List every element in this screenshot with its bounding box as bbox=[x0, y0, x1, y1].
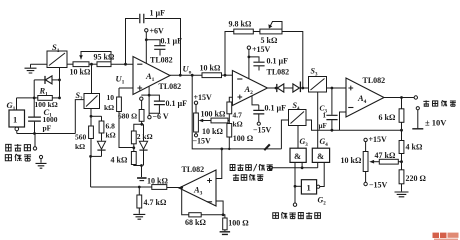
switch S1 bbox=[47, 51, 67, 68]
wire G1 output down bbox=[16, 131, 18, 134]
op-amp A1 TL082 bbox=[133, 57, 170, 95]
wiper of 10 kOhm potentiometer bbox=[81, 52, 111, 62]
potentiometer 5 kOhm bbox=[260, 29, 282, 34]
bus wire to A3 input resistor bbox=[91, 186, 152, 188]
svg-text:&: & bbox=[294, 151, 301, 161]
offset resistor 100 kOhm bbox=[201, 120, 211, 122]
A1 output wire node Uo bbox=[170, 74, 202, 76]
resistor 100 Ohm to bus bbox=[228, 121, 230, 124]
resistor 10 kOhm to A2 inverting input bbox=[202, 73, 222, 78]
DC output terminal bbox=[414, 96, 417, 99]
red watermark bbox=[433, 233, 459, 240]
ground under 4 kOhm bbox=[137, 177, 147, 179]
svg-text:0.1 µF: 0.1 µF bbox=[267, 57, 289, 66]
capacitor C1 1000 pF bbox=[33, 98, 35, 117]
wire 95 kOhm to A1 inverting input bbox=[111, 63, 133, 65]
svg-text:6 kΩ: 6 kΩ bbox=[379, 113, 396, 122]
svg-text:47 kΩ: 47 kΩ bbox=[375, 151, 396, 160]
svg-text:TL082: TL082 bbox=[150, 56, 173, 65]
svg-text:2 kΩ: 2 kΩ bbox=[137, 132, 153, 141]
negative supply -15V of A2 bbox=[252, 96, 259, 105]
wire G2 input bbox=[295, 185, 301, 187]
svg-text:5 kΩ: 5 kΩ bbox=[261, 36, 278, 45]
wire S2 bottom bbox=[90, 109, 92, 117]
svg-text:680 Ω: 680 Ω bbox=[118, 112, 137, 121]
polarity input terminal bbox=[293, 203, 296, 206]
+15V terminal of A4 pot bbox=[365, 142, 367, 152]
svg-text:10 kΩ: 10 kΩ bbox=[202, 127, 223, 136]
offset potentiometer 10 kOhm at A4 bbox=[363, 152, 368, 172]
resistor 4 kOhm bbox=[133, 148, 135, 152]
polarity wire to G3 and G2 bbox=[294, 162, 296, 203]
positive supply +15V of A2 bbox=[247, 46, 250, 49]
resistor 47 kOhm bbox=[379, 159, 398, 164]
input network under A1 plus input: resistor 10 kOhm bbox=[119, 87, 133, 89]
resistor 220 Ohm bbox=[401, 162, 403, 170]
svg-text:−6 V: −6 V bbox=[153, 112, 169, 121]
gate G4 AND box bbox=[312, 148, 329, 162]
wire to A3 output apex bbox=[167, 187, 182, 189]
svg-text:+6V: +6V bbox=[150, 27, 165, 36]
resistor 4.7 kOhm to ground bbox=[138, 187, 140, 195]
resistor 6 kOhm bbox=[401, 98, 403, 109]
wire S1 to potentiometer bbox=[67, 63, 73, 65]
svg-text:kΩ: kΩ bbox=[106, 131, 116, 140]
svg-text:9.8 kΩ: 9.8 kΩ bbox=[229, 20, 252, 29]
resistor 100 Ohm at A3 output bbox=[223, 215, 225, 218]
feedback resistor 9.8 kOhm bbox=[225, 32, 234, 76]
svg-text:68 kΩ: 68 kΩ bbox=[185, 218, 206, 227]
stub to G4 input bbox=[317, 162, 319, 167]
output reference terminal and bar bbox=[416, 107, 419, 110]
svg-text:pF: pF bbox=[43, 124, 52, 133]
diode across R1 bbox=[34, 79, 45, 81]
svg-text:100 kΩ: 100 kΩ bbox=[201, 110, 226, 119]
resistor 10 kOhm at A3 output bbox=[152, 185, 167, 190]
time pulse input label bbox=[5, 144, 12, 151]
wire pot to 95 kOhm bbox=[89, 63, 97, 65]
A3 plus input from bus bbox=[216, 149, 222, 179]
svg-text:10 kΩ: 10 kΩ bbox=[200, 64, 221, 73]
svg-text:kΩ: kΩ bbox=[75, 142, 85, 151]
wire S2 left to input net bbox=[75, 100, 84, 134]
A4 inverting input feedback wire bbox=[340, 112, 347, 130]
svg-text:µF: µF bbox=[319, 122, 327, 130]
inverter G2 box bbox=[301, 180, 316, 194]
svg-text:−15V: −15V bbox=[369, 181, 388, 190]
svg-text:100 Ω: 100 Ω bbox=[228, 219, 249, 228]
svg-text:kΩ: kΩ bbox=[104, 103, 114, 112]
wire junction to A3 bus bbox=[91, 155, 102, 157]
offset adjust -15V terminal bbox=[194, 134, 197, 137]
time pulse input terminal bbox=[34, 134, 36, 147]
wire G1 to R1 node bbox=[16, 98, 18, 110]
negative supply -6V of A1 bbox=[148, 86, 150, 115]
svg-text:100 Ω: 100 Ω bbox=[233, 134, 254, 143]
wiper of 5 kOhm potentiometer bbox=[270, 22, 282, 32]
wire G4 output to S3 control bbox=[317, 92, 319, 148]
svg-text:4 kΩ: 4 kΩ bbox=[111, 156, 128, 165]
time pulse ground terminal bbox=[39, 155, 42, 158]
svg-text:TL082: TL082 bbox=[182, 165, 205, 174]
svg-text:−15V: −15V bbox=[253, 126, 272, 135]
svg-text:TL082: TL082 bbox=[267, 68, 290, 77]
svg-text:+15V: +15V bbox=[194, 93, 213, 102]
gate G3 AND box bbox=[290, 148, 306, 162]
svg-text:&: & bbox=[317, 151, 324, 161]
inverter bubble at G1 output bbox=[15, 127, 19, 131]
svg-text:± 10V: ± 10V bbox=[425, 118, 447, 128]
svg-text:560: 560 bbox=[75, 133, 87, 142]
svg-text:+15V: +15V bbox=[369, 135, 388, 144]
gate G1 pulse shaper box bbox=[9, 110, 25, 127]
op-amp A4 TL082 bbox=[346, 78, 384, 117]
ground under 100 Ohm bbox=[220, 232, 231, 235]
resistor 4 kOhm in divider bbox=[401, 130, 403, 140]
svg-text:kΩ: kΩ bbox=[233, 120, 243, 129]
op-amp A2 TL082 bbox=[232, 71, 267, 106]
capacitor C3 1 uF bbox=[331, 88, 333, 115]
svg-text:1: 1 bbox=[307, 183, 311, 193]
svg-text:4.7: 4.7 bbox=[233, 111, 243, 120]
G2 output bubble bbox=[317, 185, 320, 188]
wire bottom input net bbox=[17, 133, 76, 135]
potentiometer 10 kOhm bbox=[73, 62, 89, 67]
crossing tick on bus bbox=[264, 144, 270, 150]
A4 output wire bbox=[384, 97, 414, 99]
switch S4 bbox=[289, 110, 307, 126]
decoupling capacitor 0.1 uF at -6V bbox=[149, 95, 159, 101]
wire diode anode down to R1 node bbox=[33, 80, 35, 98]
resistor 2 kOhm bbox=[134, 124, 142, 131]
svg-text:0.1 µF: 0.1 µF bbox=[265, 104, 287, 113]
svg-text:−15V: −15V bbox=[193, 137, 212, 146]
decoupling capacitor 0.1 uF at +6V bbox=[146, 40, 160, 45]
svg-text:220 Ω: 220 Ω bbox=[406, 174, 427, 183]
svg-text:10: 10 bbox=[107, 93, 115, 102]
svg-text:10 kΩ: 10 kΩ bbox=[70, 68, 91, 77]
resistor R1 100 kOhm bbox=[38, 96, 53, 101]
svg-text:0.1 µF: 0.1 µF bbox=[161, 37, 183, 46]
diode D1 at A2 output bbox=[267, 87, 276, 89]
svg-text:4 kΩ: 4 kΩ bbox=[406, 143, 423, 152]
wire G2 output to G4 bbox=[320, 162, 324, 186]
feedback resistor 68 kOhm bbox=[189, 213, 201, 217]
offset potentiometer 10 kOhm bbox=[194, 113, 199, 132]
switch S3 bbox=[309, 77, 327, 93]
sample hold label bbox=[230, 165, 236, 171]
wire ground to S1 bbox=[31, 63, 48, 65]
svg-text:4.7 kΩ: 4.7 kΩ bbox=[144, 198, 167, 207]
sample hold wire bbox=[272, 167, 317, 169]
svg-text:95 kΩ: 95 kΩ bbox=[94, 53, 115, 62]
svg-text:6.8: 6.8 bbox=[106, 122, 116, 131]
resistor 95 kOhm bbox=[97, 62, 111, 67]
wire G3 output to S4 control bbox=[297, 126, 299, 149]
capacitor 1 uF feedback loop of A1 bbox=[126, 19, 139, 65]
A3 minus input wire bbox=[216, 201, 223, 215]
sample hold input terminal bbox=[269, 166, 272, 169]
-15V terminal of A4 pot bbox=[365, 172, 367, 183]
decoupling capacitor 0.1 uF at -15V of A2 bbox=[258, 105, 260, 110]
svg-text:1: 1 bbox=[13, 115, 17, 125]
ground at S1 input bbox=[30, 64, 32, 67]
positive supply +6V of A1 bbox=[145, 29, 148, 32]
resistor 4.7 kOhm to A2 plus input bbox=[228, 114, 230, 121]
svg-text:10 kΩ: 10 kΩ bbox=[341, 156, 362, 165]
svg-text:10 kΩ: 10 kΩ bbox=[147, 177, 168, 186]
svg-text:TL082: TL082 bbox=[159, 82, 182, 91]
wire S4 right to hold line bbox=[306, 120, 402, 130]
wire S2 top to A1 minus line bbox=[91, 64, 93, 93]
decoupling capacitor 0.1 uF at +15V of A2 bbox=[249, 57, 259, 62]
wiper arrow to 10 kOhm pot bbox=[372, 161, 379, 163]
diode D2 bbox=[293, 84, 300, 92]
svg-text:1: 1 bbox=[323, 112, 327, 120]
DC output label bbox=[423, 100, 429, 106]
op-amp A3 TL082 bbox=[179, 170, 216, 206]
polarity signal label bbox=[273, 213, 279, 219]
resistor 6.8 kOhm bbox=[101, 116, 103, 121]
main bus from A1 output to S4 bbox=[192, 75, 281, 149]
wire S3 to A4 bbox=[327, 87, 347, 89]
diode parallel with 2 kOhm bbox=[143, 124, 145, 141]
svg-text:+15V: +15V bbox=[252, 45, 271, 54]
ground under 220 Ohm bbox=[395, 192, 409, 197]
wire S4 left to bus bbox=[281, 120, 288, 149]
diode below 6.8 kOhm bbox=[97, 141, 105, 149]
resistor 680 Ohm bbox=[141, 100, 143, 109]
resistor 560 kOhm bbox=[90, 116, 92, 126]
wire S1 bottom node bbox=[59, 68, 61, 98]
svg-text:0.1 µF: 0.1 µF bbox=[166, 99, 188, 108]
svg-text:TL082: TL082 bbox=[363, 76, 386, 85]
svg-text:1 µF: 1 µF bbox=[150, 9, 166, 18]
offset adjust +15V terminal bbox=[194, 101, 197, 104]
stub to G3 input bbox=[301, 162, 303, 167]
wire R1 node bbox=[17, 97, 38, 99]
